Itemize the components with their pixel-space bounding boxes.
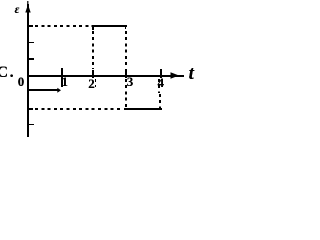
x-axis tick t=4	[160, 69, 162, 78]
tick label 3	[127, 75, 134, 88]
top dashed level line (+3 units, 0 to t=2)	[29, 25, 33, 27]
bottom dashed level line (-2 units, 0 to t=3)	[29, 108, 33, 110]
left down-stub at t=2	[92, 25, 94, 29]
y-axis tick (2 units)	[29, 42, 34, 44]
x-axis tick t=3	[125, 69, 127, 79]
tick label 4	[158, 76, 165, 89]
option label C.	[0, 65, 14, 81]
dashed vertical t=2 (level to axis)	[92, 31, 94, 69]
tick label 2	[88, 77, 95, 90]
y-axis tick (-3 units)	[29, 124, 34, 126]
right down-stub at t=3	[125, 25, 127, 29]
x-axis	[27, 75, 184, 77]
x-axis label t	[189, 64, 194, 83]
y-axis	[27, 4, 29, 137]
bottom solid segment (t=3 to t=4)	[124, 108, 162, 110]
x-axis arrowhead	[0, 0, 204, 137]
dashed vertical t=2 below axis	[95, 79, 97, 88]
top solid segment (t=2 to t=3)	[92, 25, 127, 27]
x-axis tick t=1	[61, 68, 63, 87]
interval arrow 0 to 1 below axis	[29, 89, 58, 91]
origin label 0	[18, 75, 25, 88]
y-axis label epsilon	[15, 5, 20, 17]
dashed vertical t=4 lower, upper part (axis down)	[158, 79, 160, 93]
x-axis tick t=2	[92, 70, 94, 78]
tick label 1	[62, 75, 69, 88]
dashed vertical t=4 lower, bottom part (to bottom level)	[159, 94, 161, 108]
y-axis tick (1 unit)	[29, 58, 34, 60]
dashed vertical t=3 upper (level to axis)	[125, 31, 127, 67]
y-axis arrowhead	[0, 0, 204, 137]
dashed vertical t=3 lower (axis to bottom level)	[125, 79, 127, 108]
